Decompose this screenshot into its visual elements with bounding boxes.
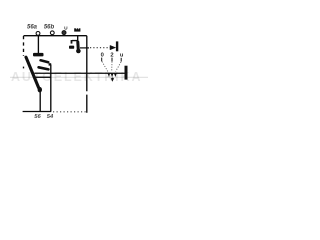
wire left dot <box>23 67 25 69</box>
wire bottom horizontal <box>23 111 52 113</box>
svg-text:56a: 56a <box>27 24 38 30</box>
arrow right <box>110 45 116 49</box>
position tick 0 <box>101 58 103 62</box>
lever V2 bulb <box>76 49 81 54</box>
contact bar B2 <box>69 46 74 49</box>
wire drop terminal 56a <box>37 36 39 53</box>
wire mech link dotted <box>90 47 110 49</box>
wire bottom terminal 54 <box>50 65 52 112</box>
lever V1 bulb <box>38 87 42 93</box>
fan line right <box>116 62 121 72</box>
svg-text:U: U <box>64 26 68 32</box>
wire actuator vertical <box>86 36 88 113</box>
fan arrowhead left <box>108 73 111 77</box>
pointer head <box>111 78 114 82</box>
wire left dashed vertical <box>23 36 25 56</box>
svg-text:56b: 56b <box>44 24 55 30</box>
switch lever V1 <box>26 57 39 87</box>
end stop bar E2 <box>125 66 128 80</box>
terminal circle U <box>62 31 66 35</box>
contact tick top of terminal 54 <box>49 63 52 65</box>
wire rail B <box>35 76 51 78</box>
svg-text:54: 54 <box>47 114 54 120</box>
wire pole2 drop <box>72 36 78 41</box>
terminal circle 56b <box>50 31 54 35</box>
wire mech link solid <box>80 47 89 49</box>
wire bottom terminal 56 <box>39 91 41 112</box>
wire rail A <box>35 72 125 74</box>
fan line left <box>102 62 108 72</box>
switch lever V2 <box>76 42 80 50</box>
svg-text:56: 56 <box>34 114 41 120</box>
position tick 2 <box>111 58 113 62</box>
contact tick pole2 <box>71 40 73 44</box>
svg-text:0: 0 <box>101 53 104 59</box>
label w notch 2 <box>78 28 79 29</box>
svg-text:2: 2 <box>110 53 113 59</box>
pointer stem <box>112 78 114 79</box>
label w blob <box>74 28 80 31</box>
wire bottom dotted link <box>53 111 86 113</box>
fan line mid <box>111 62 113 72</box>
contact dash D1 <box>41 60 49 62</box>
svg-text:u: u <box>120 53 124 59</box>
fan arrowhead right <box>114 73 117 77</box>
fan arrowhead mid <box>111 73 114 77</box>
contact dash D2 <box>39 67 49 69</box>
terminal circle 56a <box>36 32 40 36</box>
end stop bar E1 <box>116 41 118 51</box>
position tick u <box>120 58 122 62</box>
watermark strike line <box>10 76 148 78</box>
wire top rail <box>24 35 87 37</box>
contact bar B1 <box>33 53 44 57</box>
label w notch 1 <box>76 28 77 29</box>
